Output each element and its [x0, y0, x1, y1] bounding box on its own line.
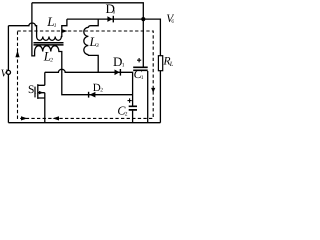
- svg-text:1: 1: [34, 90, 37, 96]
- svg-text:2: 2: [50, 57, 53, 63]
- svg-text:L: L: [169, 61, 174, 68]
- svg-text:1: 1: [122, 63, 125, 69]
- svg-text:3: 3: [95, 43, 99, 49]
- svg-text:2: 2: [125, 111, 128, 117]
- svg-text:o: o: [171, 17, 174, 24]
- svg-text:1: 1: [141, 75, 144, 81]
- svg-text:2: 2: [100, 88, 103, 94]
- svg-text:1: 1: [54, 23, 57, 29]
